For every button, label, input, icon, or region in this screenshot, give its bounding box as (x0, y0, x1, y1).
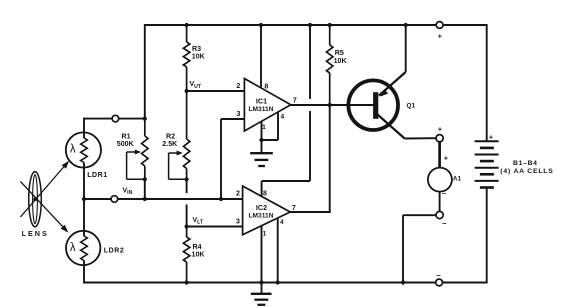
IC2 pin 8 lead (to +V, hops over output line) (262, 25, 310, 197)
svg-text:+: + (438, 32, 443, 41)
connector terminal battery minus feed (436, 279, 443, 286)
wire +V top rail (145, 24, 487, 26)
svg-text:+: + (489, 133, 494, 142)
svg-text:8: 8 (263, 191, 267, 198)
svg-text:3: 3 (236, 219, 240, 226)
wire LDR2 top lead (83, 199, 85, 236)
op-amp IC1 LM311N (244, 79, 290, 132)
svg-text:IC2: IC2 (256, 203, 267, 212)
transistor Q1 (348, 80, 398, 130)
ground main (251, 283, 272, 305)
wire left branch from +V rail down to LDR1/R1 junction (144, 24, 146, 119)
label R4 (192, 243, 206, 259)
svg-text:+: + (444, 154, 449, 163)
wire output bus down to IC2 output (329, 105, 331, 212)
svg-text:λ: λ (70, 144, 76, 156)
polarity - below A1 terminal (442, 219, 447, 228)
light ray to LDR1 (20, 161, 69, 218)
svg-text:+: + (438, 125, 443, 134)
svg-text:3: 3 (237, 111, 241, 118)
battery + label (489, 133, 494, 142)
svg-text:−: − (436, 271, 441, 280)
photoresistor LDR2 (66, 231, 100, 265)
svg-text:A1: A1 (453, 175, 462, 182)
node IC1 pin1/pin4 junction (259, 138, 263, 142)
Q1 collector lead (to A1) (378, 115, 437, 139)
polarity - at A1 bottom (442, 189, 447, 198)
polarity + above A1 terminal (438, 125, 443, 134)
IC1 pin 8 lead (260, 25, 262, 88)
svg-text:2: 2 (236, 83, 240, 90)
wire LDR2 bottom lead (83, 265, 85, 284)
label LDR2 (104, 248, 124, 255)
node VIN junction on LDR string (82, 197, 86, 201)
wire IC1 output to Q1 base (291, 104, 374, 106)
polarity + at A1 top (444, 154, 449, 163)
IC2 pin 8 label (263, 191, 267, 198)
IC1 pin 7 label (293, 98, 297, 105)
svg-text:LM311N: LM311N (249, 212, 274, 219)
wire LDR1 top horizontal (84, 118, 145, 120)
svg-text:B1–B4: B1–B4 (513, 160, 538, 167)
node +V/IC1 pin8 junction (259, 23, 263, 27)
IC1 pin 8 label (264, 83, 268, 90)
svg-text:−: − (442, 219, 447, 228)
node +V/R5 junction (328, 23, 332, 27)
IC2 pin 3 label (236, 219, 240, 226)
IC2 pin 7 label (292, 205, 296, 212)
Q1 emitter lead (to +V) (379, 25, 406, 97)
svg-text:7: 7 (292, 205, 296, 212)
ray crossing point (33, 197, 37, 201)
node VIN/R1 junction (143, 197, 147, 201)
wire battery negative lead (486, 188, 488, 284)
IC2 pin 4 lead (277, 218, 279, 283)
connector terminal on VIN wire (111, 196, 118, 203)
label R5 (334, 49, 348, 65)
IC2 pin 4 label (280, 219, 284, 226)
label R2 (162, 133, 178, 148)
node VUT junction (185, 89, 189, 93)
label (4) AA CELLS (500, 168, 553, 175)
svg-text:1: 1 (263, 231, 267, 238)
svg-text:LM311N: LM311N (249, 106, 274, 113)
node junction R1 top / LDR1 top (143, 117, 147, 121)
label A1 (453, 175, 462, 182)
node VIN/IC1 pin3 junction (219, 197, 223, 201)
svg-text:10K: 10K (192, 52, 206, 60)
node R1 wiper junction (143, 177, 147, 181)
resistor R2 2.5K (183, 91, 189, 193)
connector terminal A1 plus (436, 135, 443, 142)
R1 wiper arm (127, 150, 145, 180)
resistor R3 10K (183, 25, 189, 91)
label VIN (123, 188, 133, 197)
ground IC1 (250, 140, 273, 166)
IC2 pin 1 lead (261, 226, 263, 283)
wire VIN horizontal (84, 198, 243, 200)
svg-text:4: 4 (280, 219, 284, 226)
IC1 pin 1 lead (261, 121, 263, 140)
meter A1 (428, 168, 452, 192)
resistor R5 10K (327, 25, 333, 105)
IC1 pin 4 lead (262, 112, 279, 140)
wire R2 bottom to VLT (hops over VIN) (186, 205, 188, 227)
connector terminal on LDR top wire (112, 115, 119, 122)
wire VLT to IC2 pin3 (187, 226, 243, 228)
svg-text:LDR2: LDR2 (104, 248, 124, 255)
svg-text:λ: λ (70, 242, 76, 254)
svg-text:(4) AA CELLS: (4) AA CELLS (500, 168, 553, 175)
wire A1 return to ground rail (403, 215, 436, 282)
resistor R1 500K (142, 119, 148, 199)
node R2 wiper junction (185, 177, 189, 181)
svg-text:IC1: IC1 (256, 97, 267, 106)
wire terminal to A1 (438, 142, 441, 168)
svg-text:LDR1: LDR1 (87, 172, 107, 179)
wire IC2 output horizontal (290, 211, 331, 213)
svg-text:10K: 10K (192, 250, 206, 258)
svg-text:−: − (442, 189, 447, 198)
wire LDR1 bottom lead (83, 168, 85, 200)
node +V/Q1 emitter junction (404, 23, 408, 27)
connector terminal battery plus feed (436, 22, 443, 29)
svg-text:7: 7 (293, 98, 297, 105)
polarity + below top terminal (438, 32, 443, 41)
resistor R4 10K (183, 227, 189, 283)
IC2 pin 1 label (263, 231, 267, 238)
node IC2 pin1/ground junction (259, 280, 263, 284)
battery B1-B4 (475, 141, 499, 187)
label LDR1 (87, 172, 107, 179)
wire VUT to IC1 pin2 (187, 90, 245, 92)
wire battery positive lead (486, 24, 488, 142)
label LENS (22, 229, 49, 238)
photoresistor LDR1 (66, 132, 101, 167)
connector terminal A1 minus (436, 211, 443, 218)
light ray to LDR2 (20, 181, 68, 232)
svg-text:1: 1 (262, 124, 266, 131)
IC2 pin 2 label (236, 191, 240, 198)
node VLT junction (185, 224, 189, 228)
svg-text:8: 8 (264, 83, 268, 90)
node output/R5 junction (328, 103, 332, 107)
node R4 bottom junction (185, 280, 189, 284)
svg-text:10K: 10K (334, 57, 348, 65)
op-amp IC2 LM311N (243, 186, 291, 235)
node ground rail/A1 junction (401, 280, 405, 284)
svg-text:4: 4 (280, 114, 284, 121)
node +V/R3 junction (185, 23, 189, 27)
node +V/IC2 pin8 junction (308, 23, 312, 27)
label R3 (192, 45, 206, 61)
IC1 pin 3 label (237, 111, 241, 118)
label Q1 (407, 103, 416, 110)
node IC2 pin4/ground junction (276, 280, 280, 284)
svg-text:2.5K: 2.5K (162, 140, 178, 148)
wire LDR1 top lead (83, 118, 85, 138)
wire A1 to bottom terminal (439, 192, 441, 212)
label R1 (117, 133, 135, 148)
wire IC1 pin3 branch (221, 119, 244, 199)
svg-text:2: 2 (236, 191, 240, 198)
IC1 pin 4 label (280, 114, 284, 121)
svg-text:LENS: LENS (22, 229, 49, 238)
lens (29, 172, 42, 227)
R2 wiper arm (169, 151, 187, 180)
polarity - above bottom terminal (436, 271, 441, 280)
label B1-B4 (513, 160, 538, 167)
svg-text:Q1: Q1 (407, 103, 416, 110)
label VUT (190, 81, 202, 90)
wire ground bottom rail (83, 281, 487, 283)
label VLT (193, 217, 204, 226)
IC1 pin 1 label (262, 124, 266, 131)
svg-text:500K: 500K (117, 140, 135, 148)
IC1 pin 2 label (236, 83, 240, 90)
